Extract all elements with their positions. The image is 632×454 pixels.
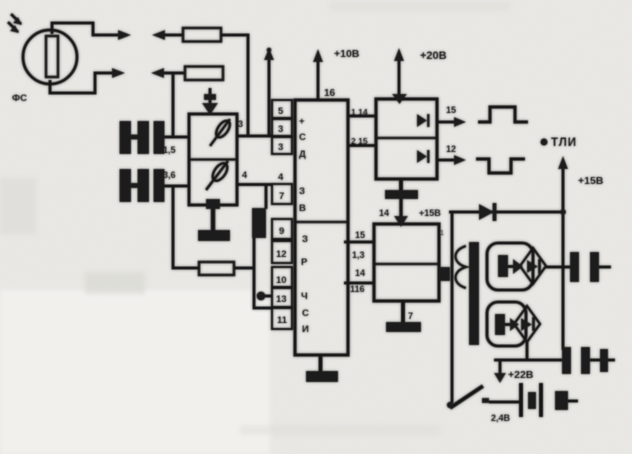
svg-text:И: И [302, 324, 309, 335]
svg-text:+10В: +10В [334, 48, 360, 60]
svg-text:1,5: 1,5 [163, 145, 176, 155]
svg-text:+15В: +15В [419, 208, 441, 218]
svg-text:3,6: 3,6 [163, 170, 176, 180]
svg-text:4: 4 [278, 172, 284, 183]
svg-text:7: 7 [279, 191, 284, 202]
svg-text:+15В: +15В [578, 175, 604, 187]
svg-text:2,4В: 2,4В [491, 413, 511, 423]
svg-text:3: 3 [238, 119, 243, 129]
svg-text:1 14: 1 14 [351, 107, 368, 117]
svg-text:ФС: ФС [12, 93, 27, 104]
svg-text:7: 7 [408, 311, 413, 321]
svg-text:14: 14 [355, 268, 365, 278]
svg-text:11: 11 [277, 315, 288, 326]
svg-text:С: С [302, 308, 309, 319]
svg-text:Ч: Ч [301, 291, 308, 302]
svg-text:Д: Д [299, 149, 306, 160]
svg-text:1: 1 [440, 230, 444, 237]
svg-text:5: 5 [278, 106, 284, 117]
svg-text:Р: Р [301, 257, 308, 268]
svg-text:+22В: +22В [508, 369, 534, 381]
svg-text:16: 16 [324, 88, 336, 99]
svg-text:З: З [302, 234, 308, 245]
svg-text:14: 14 [379, 208, 389, 218]
svg-text:12: 12 [446, 144, 456, 154]
svg-text:3: 3 [278, 124, 283, 135]
svg-text:1,3: 1,3 [352, 250, 365, 260]
svg-text:12: 12 [276, 249, 287, 260]
svg-text:4: 4 [242, 170, 247, 180]
svg-text:С: С [299, 132, 306, 143]
svg-text:З: З [299, 186, 305, 197]
svg-text:3: 3 [278, 142, 283, 153]
svg-text:+20В: +20В [420, 50, 447, 62]
svg-text:9: 9 [279, 226, 284, 237]
svg-text:116: 116 [350, 284, 365, 294]
svg-text:15: 15 [355, 230, 365, 240]
svg-text:+: + [299, 116, 305, 127]
svg-text:2 15: 2 15 [351, 136, 368, 146]
svg-text:15: 15 [446, 105, 456, 115]
svg-text:В: В [299, 203, 306, 214]
svg-text:13: 13 [276, 294, 287, 305]
svg-text:ТЛИ: ТЛИ [551, 137, 577, 149]
svg-text:10: 10 [276, 275, 287, 286]
